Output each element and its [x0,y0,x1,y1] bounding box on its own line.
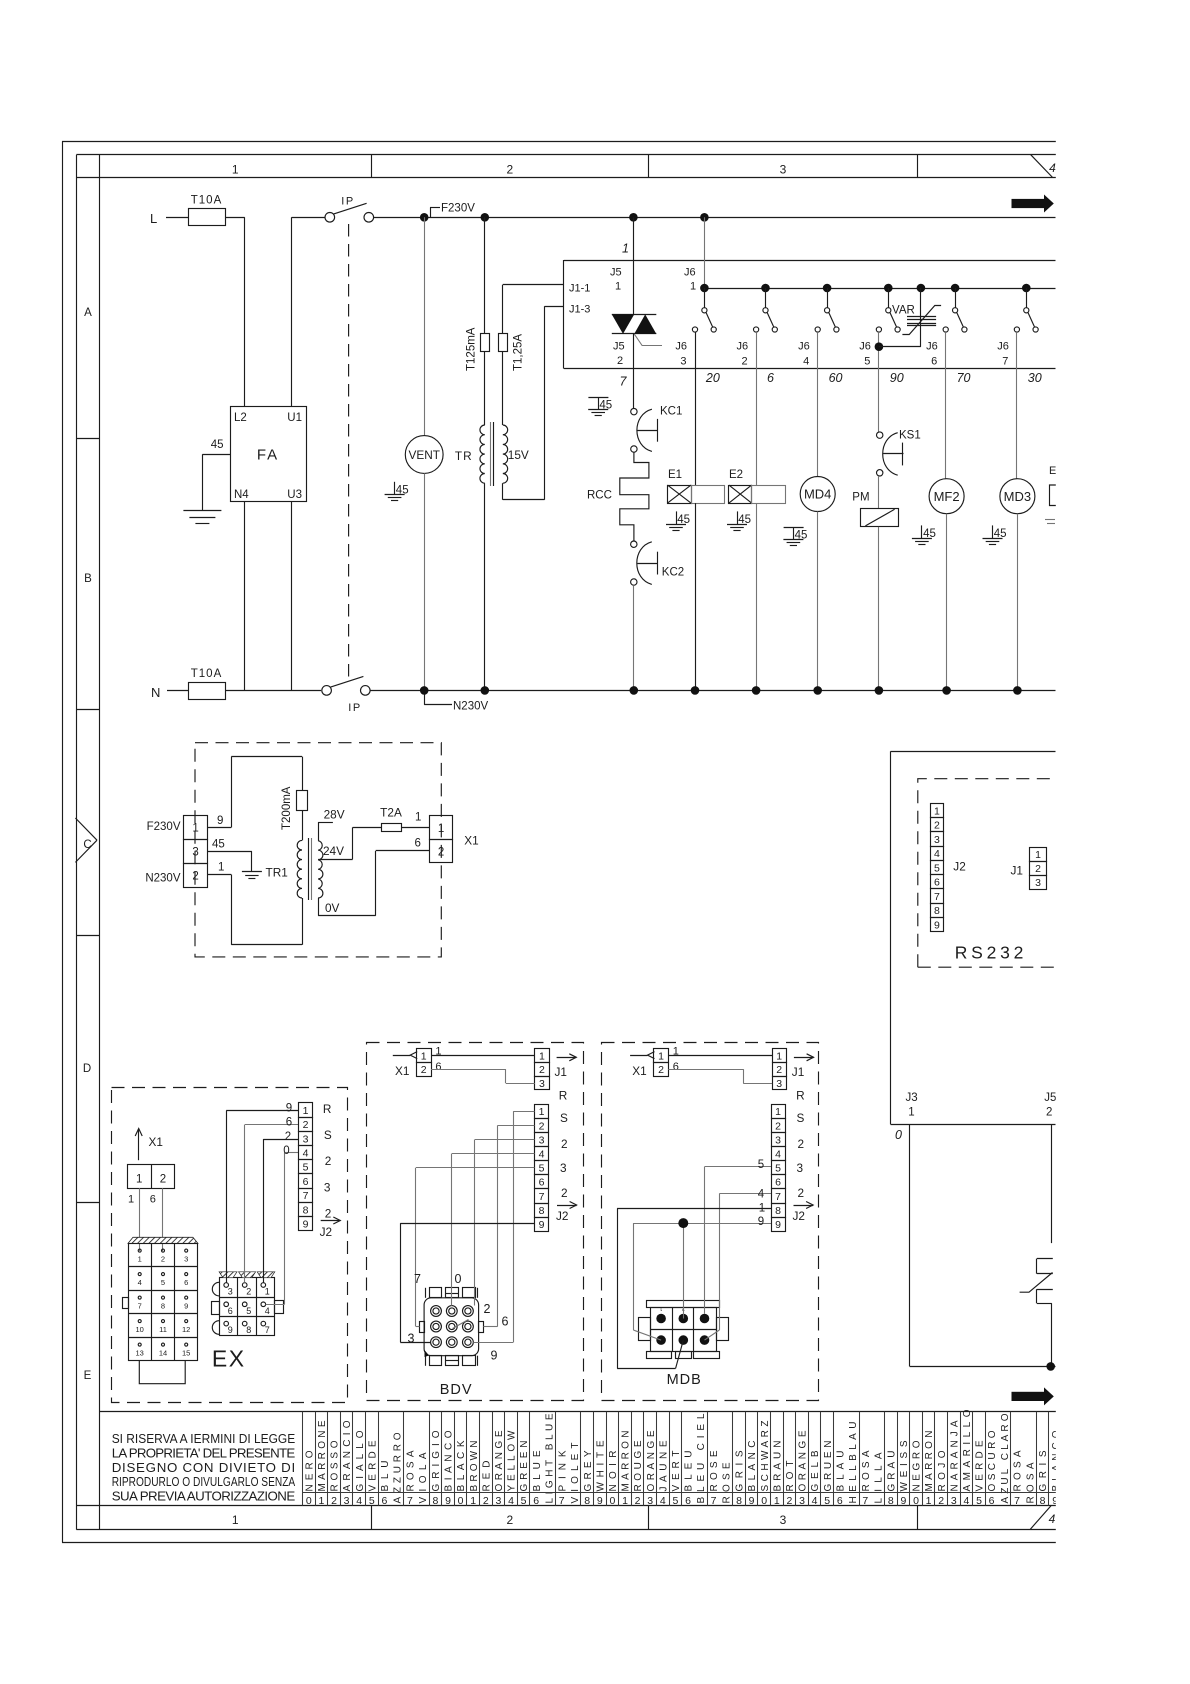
svg-text:1: 1 [934,805,940,817]
svg-text:70: 70 [957,371,971,385]
svg-text:TR1: TR1 [266,866,288,880]
wire MDB pin2 up [683,1223,685,1318]
label EX [212,1346,246,1372]
svg-text:6: 6 [415,838,421,850]
svg-text:3: 3 [324,1181,331,1195]
svg-text:3: 3 [776,1078,782,1090]
legend column 5 VERT [670,1412,683,1508]
svg-text:24V: 24V [323,844,344,858]
svg-text:1: 1 [136,1173,142,1185]
svg-text:J6: J6 [859,341,871,353]
legend column 6 BLUE [530,1412,556,1508]
legend column 5 VERDE [973,1412,986,1508]
svg-text:S: S [797,1111,805,1125]
svg-text:AZUL CLARO: AZUL CLARO [1000,1413,1011,1503]
connector J2 MDB [772,1105,786,1232]
svg-text:EX: EX [212,1346,246,1372]
svg-text:5: 5 [539,1163,545,1175]
svg-text:BLU: BLU [380,1461,391,1492]
svg-text:S: S [560,1111,568,1125]
svg-text:3: 3 [303,1133,309,1145]
legend number separator line [303,1492,1057,1494]
dashed box BDV [367,1043,584,1401]
svg-text:6: 6 [184,1278,188,1287]
svg-text:7: 7 [620,375,628,389]
svg-text:3: 3 [495,1495,501,1507]
svg-text:1: 1 [622,1495,628,1507]
wire EX pin1 to J2-3 [263,1131,298,1283]
wire J1-1 net [503,285,564,334]
legend column 4 AMARILLO [961,1409,974,1507]
svg-text:45: 45 [599,400,612,412]
legend column 4 GIALLO [353,1412,366,1508]
svg-text:J2: J2 [556,1209,568,1223]
junction dot N bus [942,686,951,695]
svg-text:2: 2 [934,820,940,832]
wire J6-2 to E2 [756,332,758,485]
connector X1 section C [430,816,479,863]
svg-text:9: 9 [934,920,940,932]
wire J6-4 to MD4 [817,332,819,476]
legend last divider [1061,1412,1063,1506]
pin label J6 1 [684,267,696,293]
svg-text:U3: U3 [287,489,302,501]
ground 45 KC1 [588,398,612,416]
svg-text:X1: X1 [149,1135,163,1149]
connector X1 MDB [654,1049,669,1077]
svg-text:BDV: BDV [440,1382,473,1398]
connector EX left bumps [212,1282,220,1334]
svg-text:1: 1 [759,1203,765,1215]
legend column 9 WEISS [898,1412,911,1508]
zone number 1 top [232,163,239,177]
svg-text:2: 2 [938,1495,944,1507]
svg-text:4: 4 [812,1495,818,1507]
fuse T200mA [281,786,308,830]
svg-text:6: 6 [837,1495,843,1507]
wire label 0 italic [895,1128,902,1142]
svg-text:TR: TR [455,449,473,463]
zone band bottom [76,1506,1056,1530]
svg-text:WEISS: WEISS [899,1440,910,1491]
svg-text:6: 6 [685,1495,691,1507]
wire pin1 to primary [208,815,232,828]
svg-text:LA PROPRIETA' DEL PRESENTE: LA PROPRIETA' DEL PRESENTE [112,1446,296,1461]
legend column 9 BLANC [746,1412,759,1508]
junction dot MDB [678,1218,688,1228]
svg-text:45: 45 [994,528,1007,540]
svg-text:KC1: KC1 [660,406,682,418]
arrow continuation bottom right [1012,1387,1054,1405]
svg-text:7: 7 [1014,1495,1020,1507]
svg-text:6: 6 [303,1176,309,1188]
pin labels J2 MDB right [797,1111,805,1200]
svg-text:7: 7 [559,1495,565,1507]
svg-text:J6: J6 [798,341,810,353]
connector EX right tab [275,1301,284,1314]
legend column 5 GRUEN [821,1412,834,1508]
wire J6-7 to MD3 [1016,332,1018,479]
svg-text:E: E [1049,465,1056,477]
svg-text:J6: J6 [684,267,696,279]
svg-text:1: 1 [421,1050,427,1062]
svg-text:13: 13 [136,1349,144,1358]
svg-text:N: N [151,685,160,700]
svg-text:T10A: T10A [191,195,223,207]
svg-text:3: 3 [408,1332,415,1346]
svg-text:2: 2 [742,356,748,368]
right page clip margin [1056,0,1190,1684]
legend column 0 SCHWARZ [758,1412,771,1508]
svg-text:4: 4 [803,356,809,368]
svg-text:J5: J5 [1044,1092,1056,1104]
svg-text:7: 7 [1002,356,1008,368]
arrow continuation top right [1012,195,1054,213]
svg-text:2: 2 [775,1120,781,1132]
legend column 1 MARRON [923,1412,936,1508]
legend column 2 ROUGE [632,1412,645,1508]
svg-text:9: 9 [749,1495,755,1507]
svg-text:X1: X1 [632,1064,646,1078]
pin label J6 2 [737,341,749,368]
pin label R BDV [559,1089,568,1103]
pin label J6 6 [926,341,938,368]
svg-text:1: 1 [539,1050,545,1062]
ground 45 MF2 [912,525,936,544]
svg-text:2: 2 [506,163,513,177]
svg-text:1: 1 [232,163,239,177]
svg-text:9: 9 [228,1325,233,1335]
legend column 9 BIANCO [442,1412,455,1508]
junction dot N bus [752,686,761,695]
ground 45 MD4 [783,528,807,546]
svg-text:MD3: MD3 [1004,489,1031,504]
svg-text:2: 2 [192,871,198,883]
switch J6-6 [943,284,967,332]
legend column 4 GELB [809,1412,822,1508]
svg-text:7: 7 [934,891,940,903]
svg-text:9: 9 [491,1349,498,1363]
legend column 3 ORANGE [493,1412,506,1508]
svg-text:FA: FA [257,447,279,464]
fuse T2A [380,806,421,832]
svg-text:45: 45 [923,528,936,540]
svg-text:F230V: F230V [147,821,181,833]
svg-text:KS1: KS1 [899,430,921,442]
svg-text:6: 6 [150,1194,156,1206]
svg-text:3: 3 [560,1161,567,1175]
svg-text:A: A [84,307,92,319]
svg-text:7: 7 [539,1191,545,1203]
wire VENT bottom [424,473,426,690]
transformer TR1 primary [297,840,302,898]
svg-text:8: 8 [934,905,940,917]
svg-text:0V: 0V [325,901,340,915]
legend column 5 GREEN [518,1412,531,1508]
switch J6-7 [1014,284,1038,332]
svg-text:9: 9 [286,1103,292,1115]
svg-text:VAR: VAR [892,305,915,317]
svg-text:RED: RED [481,1461,492,1492]
legend column 0 NOIR [607,1412,620,1508]
svg-text:2: 2 [1035,863,1041,875]
wire J1-3 net [503,306,564,500]
legend column 3 ARANCIO [341,1412,354,1508]
controller box [564,260,1056,369]
wire pin3 to ground [208,839,252,872]
svg-text:MF2: MF2 [934,489,960,504]
svg-text:7: 7 [303,1190,309,1202]
legend column 8 GREY [581,1412,594,1508]
ground FA [183,511,221,524]
svg-text:SUA PREVIA AUTORIZZAZIONE: SUA PREVIA AUTORIZZAZIONE [112,1489,296,1504]
legend column 6 BLEU [682,1412,708,1508]
svg-text:6: 6 [767,371,774,385]
svg-text:6: 6 [228,1306,233,1316]
wire T2A to X1 [401,827,429,829]
legend disclaimer text [112,1431,296,1503]
svg-text:11: 11 [159,1325,167,1334]
svg-text:MD4: MD4 [804,487,831,502]
svg-text:20: 20 [705,371,720,385]
legend column 7 ROSA [404,1412,430,1508]
svg-text:8: 8 [161,1302,165,1311]
connector BDV tabs bottom [426,1356,478,1366]
tap 0V wire [318,838,429,916]
svg-text:3: 3 [780,163,787,177]
svg-text:6: 6 [381,1495,387,1507]
legend column 6 BLU [379,1412,404,1508]
legend column 6 OSCURO [986,1412,1011,1508]
svg-text:3: 3 [647,1495,653,1507]
tap 24V wire [318,827,381,859]
connector J1 MDB [773,1049,787,1091]
connector MDB flange bottom [647,1352,720,1359]
wire BDV J2-1 [473,1111,534,1342]
zone number 2 bottom [506,1513,513,1527]
node N [151,685,188,700]
svg-text:X1: X1 [395,1064,409,1078]
arrow X1 BDV [393,1052,417,1078]
pin label J3 1 [906,1092,918,1119]
svg-text:J1: J1 [555,1065,567,1079]
legend column 1 BRAUN [771,1412,784,1508]
pin label 45 FA [202,439,230,510]
svg-text:J2: J2 [320,1225,332,1239]
svg-text:MARRONE: MARRONE [317,1420,328,1491]
svg-text:J1-3: J1-3 [569,304,590,316]
connector BDV link [453,1320,469,1329]
svg-text:9: 9 [303,1219,309,1231]
PCB board outline [891,751,1056,1124]
junction dot VENT [420,213,429,222]
junction dot VAR tap [875,342,884,351]
wire BDV J2-2 [483,1125,534,1326]
ground TR1 [242,872,262,879]
connector J2 EX [299,1103,313,1231]
svg-text:WHITE: WHITE [595,1440,606,1491]
junction dot N bus [691,686,700,695]
connector X1 BDV [417,1049,432,1077]
svg-text:5: 5 [303,1162,309,1174]
wire J6-3 to E1 [695,332,697,485]
svg-text:RCC: RCC [587,490,612,502]
svg-text:4: 4 [138,1278,142,1287]
svg-text:1: 1 [138,1255,142,1264]
legend column 2 ROT [784,1412,797,1508]
wire VENT top [424,217,426,435]
wire L fuse to FA L2 [225,217,245,407]
arrow J1 MDB [792,1054,814,1079]
svg-text:7: 7 [862,1495,868,1507]
svg-text:1: 1 [265,1287,270,1297]
transformer TR1 core [309,838,312,900]
junction dot N bus [630,686,639,695]
svg-text:1: 1 [303,1105,309,1117]
svg-text:45: 45 [211,439,224,451]
svg-text:1: 1 [470,1495,476,1507]
wire MD4 to N bus [817,512,819,691]
legend column 2 RED [480,1412,493,1508]
svg-text:GREEN: GREEN [519,1441,530,1492]
connector MDB side tabs [639,1318,729,1341]
wire PM to N bus [878,527,880,691]
connector X terminals 1-3-2 [184,816,208,888]
legend column 9 WHITE [594,1412,607,1508]
dashed box RS232 [918,779,1056,968]
fuse T10A line N [189,668,226,700]
pin labels X1 MDB [673,1046,679,1074]
junction dot N bus [1013,686,1022,695]
motor VENT [405,436,443,474]
keypad bottom shroud [139,1361,185,1384]
legend column 6 BLAU [834,1412,860,1508]
svg-text:6: 6 [539,1177,545,1189]
border frame inner [76,155,1056,1530]
svg-text:6: 6 [775,1177,781,1189]
svg-text:6: 6 [502,1315,509,1329]
connector J1 BDV [535,1049,550,1091]
row divider C-D [76,935,99,937]
svg-text:8: 8 [432,1495,438,1507]
wire EX pin4 to J2-4 [266,1145,299,1305]
svg-text:7: 7 [138,1302,142,1311]
net label F230V left [147,821,181,833]
wire MF2 to N bus [946,514,948,691]
legend column 7 ROSA [860,1412,885,1508]
row letter E [84,1370,92,1382]
keypad left tab [123,1298,129,1309]
arrow J2 EX [320,1217,341,1239]
wire label 7 BDV [414,1272,421,1286]
svg-text:J6: J6 [675,341,687,353]
transformer TR core [491,422,494,486]
transformer TR1 secondary [318,841,323,898]
svg-text:ROT: ROT [785,1461,796,1492]
svg-text:7: 7 [407,1495,413,1507]
svg-text:2: 2 [658,1064,664,1076]
svg-text:B: B [84,573,92,585]
wire EX pin2 to J2-2 [245,1117,299,1283]
svg-text:1: 1 [192,823,198,835]
svg-text:1: 1 [232,1513,239,1527]
svg-text:1: 1 [776,1050,782,1062]
svg-text:1: 1 [690,281,696,293]
connector J1 RS232 [1011,848,1047,890]
pin label R MDB [796,1089,805,1103]
svg-text:45: 45 [396,485,409,497]
legend column 8 GRIGIO [430,1412,443,1508]
ground 45 E1 [666,511,690,530]
svg-text:J6: J6 [997,341,1009,353]
svg-text:8: 8 [736,1495,742,1507]
svg-text:X1: X1 [464,834,478,848]
pin labels X1 BDV [435,1046,441,1074]
motor MD3 [1000,479,1035,514]
zone band top [76,155,1056,178]
svg-text:7: 7 [414,1272,421,1286]
wire MDB J2-5 [705,1159,772,1314]
wire FA N4 down [244,501,246,690]
svg-text:1: 1 [1035,849,1041,861]
svg-text:D: D [83,1063,91,1075]
svg-text:4: 4 [963,1495,969,1507]
wire label 30 [1028,371,1042,385]
svg-text:SI RISERVA A IERMINI DI LEGGE: SI RISERVA A IERMINI DI LEGGE [112,1431,296,1446]
svg-text:1: 1 [218,862,224,874]
svg-text:9: 9 [539,1219,545,1231]
row letter C [83,839,91,851]
label MDB [667,1372,702,1388]
svg-text:7: 7 [775,1191,781,1203]
ground 45 VENT [385,482,409,501]
motor MF2 [929,479,964,514]
thermostat KS1 [877,430,921,476]
svg-text:1: 1 [774,1495,780,1507]
legend column 9 BLANCO [1049,1412,1062,1508]
svg-text:2: 2 [539,1120,545,1132]
wire label 90 [890,371,904,385]
wire N fuse to IP [225,690,321,692]
legend column 0 BLACK [455,1412,468,1508]
svg-text:3: 3 [184,1255,188,1264]
wire BDV J2-5 [416,1168,535,1327]
wire T125mA top [484,217,486,333]
wire label 0 BDV [455,1272,462,1286]
wire J5-2 down [1051,1124,1053,1243]
switch IP bottom [322,676,370,713]
svg-text:8: 8 [584,1495,590,1507]
svg-text:2: 2 [325,1154,332,1168]
svg-text:4: 4 [1049,1512,1056,1526]
svg-text:J6: J6 [926,341,938,353]
svg-text:3: 3 [951,1495,957,1507]
label BDV [440,1382,473,1398]
wire X1-1 to J1-1 MDB [668,1055,772,1057]
svg-text:2: 2 [331,1495,337,1507]
fuse T1.25A [499,334,525,372]
svg-text:3: 3 [539,1078,545,1090]
arrow X1 up [135,1129,163,1161]
connector J2 BDV [535,1105,549,1232]
svg-text:4: 4 [775,1149,781,1161]
zone number 3 top [780,163,787,177]
wire pin2 to primary return [208,862,232,875]
legend column 4 YELLOW [505,1412,518,1508]
dashed box TR1 [195,743,441,957]
svg-text:J1: J1 [1011,864,1023,878]
svg-text:2: 2 [484,1302,491,1316]
